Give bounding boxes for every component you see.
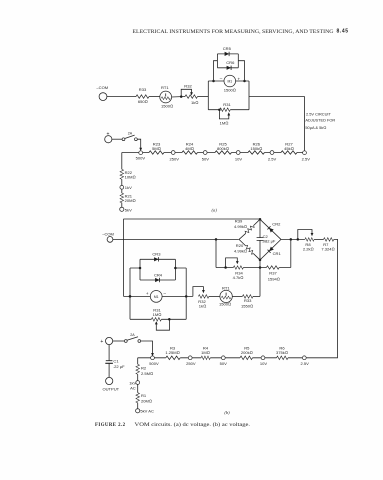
svg-text:5kV: 5kV: [125, 207, 132, 212]
svg-text:R37: R37: [269, 270, 277, 275]
terminal + (a): [105, 136, 112, 143]
diode CR3: [140, 252, 175, 280]
svg-text:1kΩ: 1kΩ: [191, 100, 198, 105]
wire to bridge bottom: [253, 295, 260, 297]
resistor R5: [240, 356, 253, 360]
svg-text:1MΩ: 1MΩ: [220, 120, 229, 125]
dc range chain wires: [122, 152, 303, 154]
svg-text:(a): (a): [212, 208, 218, 213]
resistor R6: [277, 356, 288, 360]
node 500V: [139, 151, 143, 155]
svg-text:10V: 10V: [235, 156, 243, 161]
svg-text:C1: C1: [113, 358, 119, 363]
diode CR5: [214, 46, 245, 81]
svg-text:2.2kΩ: 2.2kΩ: [303, 247, 314, 252]
svg-text:2.5V: 2.5V: [302, 156, 311, 161]
bridge arm resistor R20: [234, 239, 260, 260]
resistor R21: [120, 193, 124, 203]
svg-text:4MΩ: 4MΩ: [185, 146, 194, 151]
top wire to bridge: [124, 218, 261, 220]
node 2.5V top right: [303, 151, 307, 155]
HV ac chain: [137, 358, 139, 409]
svg-text:R39: R39: [235, 219, 243, 224]
svg-text:1500Ω: 1500Ω: [224, 88, 236, 93]
svg-text:800kΩ: 800kΩ: [217, 146, 229, 151]
node 1kV: [120, 185, 124, 189]
potentiometer R31 (b): [130, 308, 186, 331]
svg-text:VOM circuits. (a) dc voltage.: VOM circuits. (a) dc voltage. (b) ac vol…: [135, 423, 251, 428]
svg-text:+: +: [237, 76, 240, 81]
svg-text:250V: 250V: [186, 361, 196, 366]
resistor R3: [166, 356, 180, 360]
svg-text:500V: 500V: [149, 361, 159, 366]
wire to right vertical: [249, 97, 305, 151]
bridge arm diode CR2: [260, 219, 281, 239]
svg-text:ADJUSTED FOR: ADJUSTED FOR: [305, 118, 335, 123]
svg-text:150kΩ: 150kΩ: [250, 146, 262, 151]
svg-text:7.324Ω: 7.324Ω: [321, 247, 334, 252]
diode loop taps: [130, 268, 186, 319]
svg-text:2A: 2A: [130, 333, 135, 337]
svg-text:R32: R32: [184, 83, 192, 88]
bridge arm diode CR1: [260, 239, 281, 260]
svg-text:1550Ω: 1550Ω: [241, 303, 253, 308]
terminal 5kV: [120, 207, 124, 211]
main wire: [113, 238, 239, 240]
bridge arm resistor R39: [234, 219, 260, 240]
resistor R33: [136, 95, 149, 99]
meter M1 (b): [146, 291, 167, 303]
svg-text:R33: R33: [139, 87, 147, 92]
svg-text:M1: M1: [227, 80, 232, 84]
terminal + (b): [106, 337, 113, 344]
svg-text:+: +: [107, 132, 110, 138]
terminal OUTPUT: [106, 377, 113, 384]
svg-text:RT1: RT1: [222, 285, 230, 290]
resistor R27: [281, 151, 297, 155]
diode CR4: [140, 273, 175, 283]
center vertical below bridge: [259, 260, 261, 297]
fuse/switch 2A (b): [124, 333, 140, 342]
potentiometer R32 (b): [193, 287, 209, 309]
svg-text:2.5MΩ: 2.5MΩ: [141, 371, 153, 376]
svg-text:20MΩ: 20MΩ: [141, 398, 152, 403]
svg-text:1.25MΩ: 1.25MΩ: [165, 350, 179, 355]
svg-text:650Ω: 650Ω: [138, 99, 148, 104]
svg-text:(b): (b): [224, 410, 230, 415]
diode CR6: [217, 60, 238, 70]
node 2.5V (b): [302, 356, 306, 360]
wire: [113, 340, 125, 342]
resistor R26: [248, 151, 265, 155]
svg-text:45kΩ: 45kΩ: [284, 146, 294, 151]
node 250V: [171, 151, 175, 155]
svg-text:RT1: RT1: [161, 85, 169, 90]
svg-text:200kΩ: 200kΩ: [241, 350, 253, 355]
svg-text:20MΩ: 20MΩ: [125, 198, 136, 203]
wire: [112, 138, 122, 140]
svg-text:2.5V CIRCUIT: 2.5V CIRCUIT: [306, 111, 331, 116]
node 50V (b): [221, 356, 225, 360]
svg-text:ELECTRICAL INSTRUMENTS FOR MEA: ELECTRICAL INSTRUMENTS FOR MEASURING, SE…: [133, 30, 335, 35]
vertical from R8 node to R37 line: [290, 239, 292, 267]
svg-text:8.45: 8.45: [337, 29, 349, 35]
wire: [198, 96, 209, 98]
svg-text:AC: AC: [130, 386, 136, 391]
svg-text:1500Ω: 1500Ω: [219, 302, 231, 307]
svg-text:50μA & 5kΩ: 50μA & 5kΩ: [305, 125, 326, 130]
wire: [107, 96, 136, 98]
node 10V: [236, 151, 240, 155]
node 250V (b): [188, 356, 192, 360]
resistor R37: [266, 266, 279, 282]
svg-text:1kV: 1kV: [125, 185, 132, 190]
terminal -COM (a): [99, 93, 107, 101]
resistor R4: [201, 356, 210, 360]
resistor R7: [324, 238, 334, 242]
svg-text:2A: 2A: [128, 131, 133, 135]
node 10V (b): [261, 356, 265, 360]
svg-text:CR3: CR3: [152, 252, 161, 257]
svg-text:R1: R1: [141, 393, 147, 398]
svg-text:CR5: CR5: [223, 46, 232, 51]
resistor R22: [120, 169, 124, 179]
left HV chain: [121, 153, 123, 208]
wire + selector arrow to 500V: [141, 341, 153, 354]
svg-text:–: –: [220, 76, 223, 81]
potentiometer R32: [180, 83, 198, 105]
svg-text:250V: 250V: [169, 156, 179, 161]
svg-text:10MΩ: 10MΩ: [125, 174, 136, 179]
svg-text:1kV: 1kV: [129, 380, 136, 385]
svg-text:CR4: CR4: [154, 273, 163, 278]
node 1kV AC: [136, 381, 140, 385]
svg-text:OUTPUT: OUTPUT: [102, 387, 119, 392]
resistor R2: [136, 364, 140, 374]
svg-text:1594Ω: 1594Ω: [268, 277, 280, 282]
svg-text:M1: M1: [154, 295, 159, 299]
svg-text:.082 μF: .082 μF: [262, 239, 276, 244]
resistor R25: [215, 151, 232, 155]
svg-text:FIGURE 2.2: FIGURE 2.2: [95, 423, 126, 428]
svg-text:R20: R20: [236, 243, 244, 248]
svg-text:375kΩ: 375kΩ: [276, 350, 288, 355]
wire bridge right to R8: [281, 238, 305, 240]
svg-text:+: +: [100, 339, 103, 345]
node 2.5V: [270, 151, 274, 155]
svg-text:1MΩ: 1MΩ: [201, 350, 210, 355]
svg-text:10V: 10V: [260, 361, 268, 366]
fuse/switch 2A (a): [122, 131, 137, 140]
svg-text:50V: 50V: [220, 361, 228, 366]
svg-text:4.99kΩ: 4.99kΩ: [234, 224, 247, 229]
svg-text:R31: R31: [223, 102, 231, 107]
terminal 5kV AC: [136, 409, 140, 413]
svg-text:–COM: –COM: [96, 85, 108, 90]
meter M1 (a): [208, 75, 249, 92]
node 50V: [203, 151, 207, 155]
svg-text:CR6: CR6: [226, 60, 235, 65]
svg-text:–COM: –COM: [102, 231, 114, 236]
svg-text:1500Ω: 1500Ω: [161, 103, 173, 108]
meter branch (b): [124, 295, 193, 297]
svg-text:R2: R2: [141, 366, 147, 371]
svg-text:+: +: [146, 291, 149, 296]
wire: [209, 295, 220, 297]
svg-text:5kV AC: 5kV AC: [140, 409, 154, 414]
svg-text:4.7kΩ: 4.7kΩ: [233, 275, 244, 280]
svg-text:–: –: [163, 291, 166, 296]
potentiometer R8: [297, 230, 315, 252]
wire: [172, 96, 185, 98]
wire: [149, 96, 160, 98]
wire: [232, 295, 242, 297]
capacitor C1: [105, 345, 125, 378]
svg-text:50V: 50V: [202, 156, 210, 161]
svg-text:2.5V: 2.5V: [301, 361, 310, 366]
svg-text:2.5V: 2.5V: [268, 156, 277, 161]
wire: [314, 238, 323, 240]
svg-text:4.99kΩ: 4.99kΩ: [234, 249, 247, 254]
svg-text:CR1: CR1: [273, 251, 282, 256]
ac range chain wires: [138, 357, 303, 359]
thermistor RT1 (b): [219, 285, 232, 306]
resistor R33 (b): [241, 295, 253, 309]
wire + selector arrow to 500V: [137, 139, 140, 148]
resistor R23: [149, 151, 164, 155]
svg-text:5MΩ: 5MΩ: [152, 146, 161, 151]
svg-text:1kΩ: 1kΩ: [199, 303, 206, 308]
shunt line from main wire: [216, 239, 291, 267]
right vertical down to chain: [306, 239, 337, 357]
capacitor C2: [257, 219, 276, 261]
svg-text:CR2: CR2: [272, 221, 281, 226]
terminal -COM (b): [107, 237, 113, 243]
potentiometer R31 (a): [208, 102, 249, 125]
potentiometer R34: [224, 258, 243, 280]
resistor R24: [182, 151, 197, 155]
left vertical wire: [123, 219, 125, 297]
meter block box (a): [208, 81, 249, 110]
thermistor RT1: [160, 85, 173, 108]
resistor R1: [136, 393, 140, 403]
svg-text:.22 μF: .22 μF: [113, 364, 125, 369]
svg-text:500V: 500V: [136, 156, 146, 161]
svg-text:1MΩ: 1MΩ: [153, 312, 162, 317]
node 500V (b): [151, 356, 155, 360]
